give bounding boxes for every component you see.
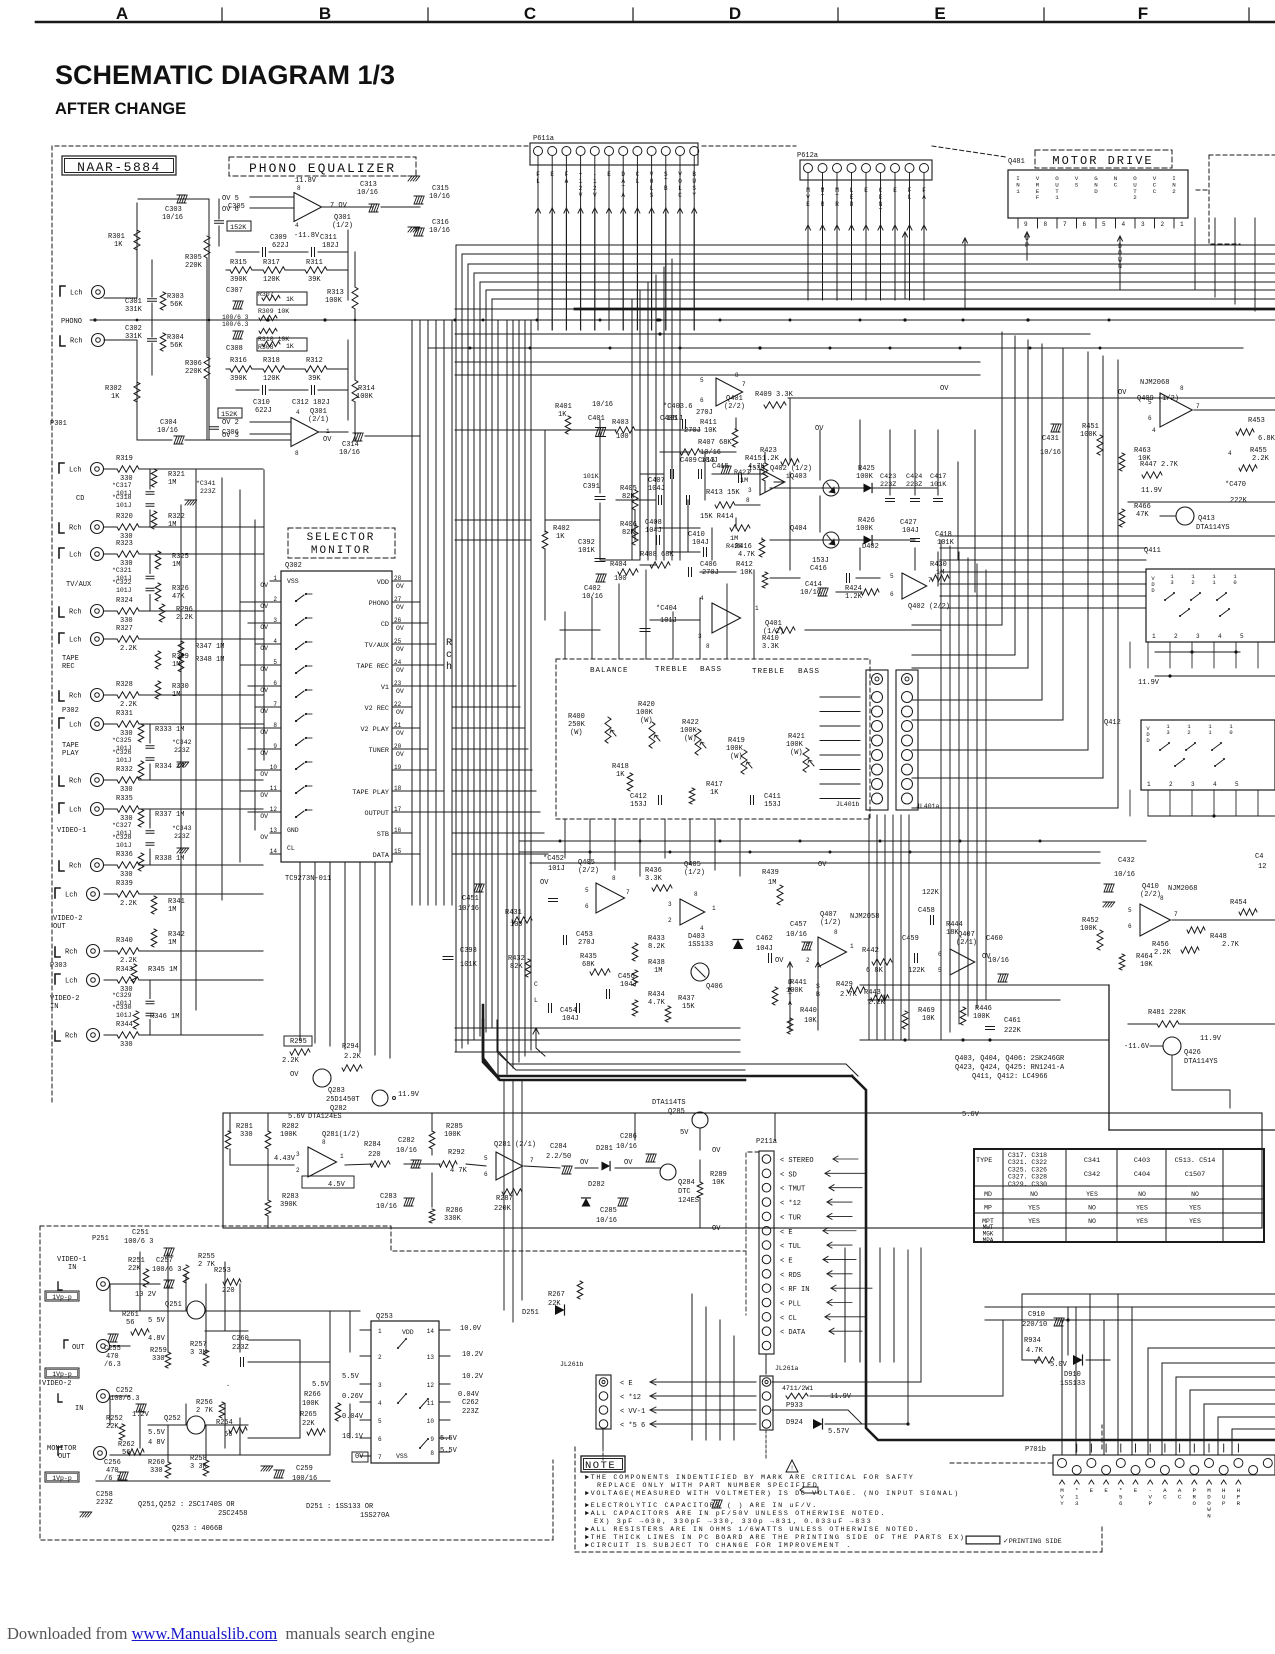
svg-text:4: 4 (1228, 450, 1232, 457)
svg-text:101J: 101J (116, 587, 132, 594)
svg-text:MP: MP (984, 1205, 992, 1212)
svg-text:*C328: *C328 (112, 834, 132, 841)
svg-text:V2 PLAY: V2 PLAY (360, 726, 389, 734)
svg-text:JL401a: JL401a (916, 803, 940, 810)
svg-text:< *5 6: < *5 6 (620, 1422, 645, 1430)
svg-text:V2 REC: V2 REC (365, 705, 389, 713)
svg-text:5: 5 (890, 573, 894, 580)
svg-text:13: 13 (427, 1354, 435, 1361)
svg-text:82K: 82K (510, 963, 523, 971)
svg-text:R425: R425 (858, 465, 875, 473)
svg-text:Q252: Q252 (164, 1415, 181, 1423)
svg-text:8: 8 (1160, 895, 1164, 902)
svg-text:12: 12 (1258, 863, 1266, 871)
svg-text:120K: 120K (263, 276, 281, 284)
svg-text:11: 11 (270, 785, 278, 792)
svg-text:100K: 100K (726, 745, 744, 753)
svg-text:R453: R453 (1248, 417, 1265, 425)
svg-text:100K: 100K (325, 297, 343, 305)
svg-text:V1: V1 (381, 684, 389, 692)
svg-text:5: 5 (1102, 221, 1106, 228)
svg-text:10/16: 10/16 (592, 401, 613, 409)
svg-text:47K: 47K (172, 593, 185, 601)
svg-text:!: ! (790, 1465, 794, 1472)
svg-text:C325. C326: C325. C326 (1008, 1166, 1047, 1173)
svg-text:< *12: < *12 (780, 1200, 801, 1208)
svg-text:Rch: Rch (69, 609, 82, 617)
svg-text:152K: 152K (221, 411, 238, 419)
svg-text:R310 10K: R310 10K (258, 336, 289, 343)
svg-text:10/16: 10/16 (1040, 449, 1061, 457)
svg-text:Rch: Rch (69, 863, 82, 871)
svg-text:(2/2): (2/2) (1140, 891, 1161, 899)
svg-text:6: 6 (378, 1436, 382, 1443)
svg-text:VSS: VSS (396, 1453, 408, 1460)
svg-text:13: 13 (270, 827, 278, 834)
svg-text:P: P (1222, 1500, 1226, 1507)
svg-text:R348 1M: R348 1M (195, 656, 224, 664)
svg-text:OV: OV (260, 645, 268, 652)
svg-text:122K: 122K (908, 967, 926, 975)
svg-text:C: C (1153, 188, 1157, 195)
svg-text:5.57V: 5.57V (828, 1428, 850, 1436)
svg-text:R342: R342 (168, 931, 185, 939)
svg-text:10.2V: 10.2V (462, 1373, 484, 1381)
svg-text:2.7K: 2.7K (1222, 941, 1240, 949)
svg-text:C252: C252 (116, 1387, 133, 1395)
svg-text:*C404: *C404 (656, 605, 677, 613)
svg-text:1M: 1M (768, 879, 776, 887)
svg-text:S: S (1075, 181, 1079, 188)
svg-text:10/16: 10/16 (458, 905, 479, 913)
svg-text:101J: 101J (116, 502, 132, 509)
svg-text:2.2K: 2.2K (120, 701, 138, 709)
svg-text:✓PRINTING SIDE: ✓PRINTING SIDE (1003, 1538, 1062, 1546)
svg-text:Lch: Lch (65, 978, 78, 986)
svg-text:D: D (1094, 188, 1098, 195)
svg-text:Q282: Q282 (330, 1105, 347, 1113)
svg-text:5: 5 (484, 1155, 488, 1162)
svg-text:10K: 10K (712, 1179, 725, 1187)
svg-text:R257: R257 (190, 1341, 207, 1349)
svg-text:Lch: Lch (65, 892, 78, 900)
svg-text:1: 1 (1180, 221, 1184, 228)
svg-text:NJM2068: NJM2068 (1140, 379, 1169, 387)
svg-text:R413 15K: R413 15K (706, 489, 740, 497)
svg-text:153J: 153J (812, 557, 829, 565)
svg-text:C412: C412 (630, 793, 647, 801)
svg-text:223Z: 223Z (174, 833, 190, 840)
svg-text:Rch: Rch (69, 693, 82, 701)
svg-text:R469: R469 (918, 1007, 935, 1015)
svg-text:D402: D402 (862, 543, 879, 551)
svg-text:C393: C393 (460, 947, 477, 955)
svg-text:39K: 39K (308, 375, 321, 383)
svg-text:C314: C314 (342, 441, 359, 449)
svg-text:R429: R429 (836, 981, 853, 989)
svg-text:Q405: Q405 (684, 861, 701, 869)
svg-text:L: L (534, 997, 538, 1004)
svg-text:10/16: 10/16 (988, 957, 1009, 965)
svg-text:Lch: Lch (69, 807, 82, 815)
svg-text:O: O (1193, 1500, 1197, 1507)
svg-text:100K: 100K (302, 1400, 320, 1408)
svg-text:2.2K: 2.2K (120, 645, 138, 653)
svg-text:*C326: *C326 (112, 749, 132, 756)
svg-text:R341: R341 (168, 898, 185, 906)
svg-text:R456: R456 (1152, 941, 1169, 949)
svg-text:NJM2068: NJM2068 (1168, 885, 1197, 893)
svg-text:OUT: OUT (53, 923, 66, 931)
svg-text:C312 182J: C312 182J (292, 399, 330, 407)
svg-text:R289: R289 (710, 1171, 727, 1179)
svg-text:DATA: DATA (373, 852, 390, 860)
svg-text:15: 15 (394, 848, 402, 855)
svg-text:VIDEO-1: VIDEO-1 (57, 827, 86, 835)
svg-text:3: 3 (806, 941, 810, 948)
svg-text:R254: R254 (216, 1419, 233, 1427)
svg-text:7: 7 (742, 381, 746, 388)
svg-text:OV: OV (580, 1159, 589, 1167)
svg-text:MOTOR DRIVE: MOTOR DRIVE (1052, 154, 1153, 168)
svg-text:R284: R284 (364, 1141, 381, 1149)
svg-text:*C321: *C321 (112, 567, 132, 574)
svg-text:R437: R437 (678, 995, 695, 1003)
svg-text:R407 68K: R407 68K (698, 439, 732, 447)
svg-text:NO: NO (1030, 1191, 1038, 1198)
svg-text:R333 1M: R333 1M (155, 726, 184, 734)
svg-text:OV 6: OV 6 (222, 206, 239, 214)
svg-text:C257: C257 (156, 1257, 173, 1265)
svg-text:14: 14 (427, 1328, 435, 1335)
svg-text:R466: R466 (1134, 503, 1151, 511)
svg-text:Q481: Q481 (1008, 158, 1025, 166)
svg-text:6: 6 (1083, 221, 1087, 228)
svg-text:Q253 : 4066B: Q253 : 4066B (172, 1525, 222, 1533)
svg-text:R313: R313 (327, 289, 344, 297)
svg-text:Q410: Q410 (1142, 883, 1159, 891)
svg-text:R332: R332 (116, 766, 133, 774)
svg-text:C451: C451 (462, 895, 479, 903)
svg-text:1K: 1K (558, 411, 567, 419)
svg-text:R339: R339 (116, 880, 133, 888)
svg-text:390K: 390K (230, 375, 248, 383)
svg-text:P251: P251 (92, 1235, 109, 1243)
svg-text:IN: IN (68, 1264, 76, 1272)
svg-text:1: 1 (850, 943, 854, 950)
svg-text:*C329: *C329 (112, 992, 132, 999)
svg-text:5: 5 (1148, 399, 1152, 406)
svg-text:101K: 101K (583, 473, 599, 480)
svg-text:(W): (W) (684, 735, 697, 743)
svg-text:►CIRCUIT IS SUBJECT TO CHANGE: ►CIRCUIT IS SUBJECT TO CHANGE FOR IMPROV… (585, 1542, 852, 1550)
svg-text:D403: D403 (688, 933, 705, 941)
svg-text:C327. C328: C327. C328 (1008, 1174, 1047, 1181)
svg-text:R322: R322 (168, 513, 185, 521)
svg-text:330: 330 (150, 1467, 163, 1475)
svg-text:R454: R454 (1230, 899, 1247, 907)
svg-text:D251 : 1SS133 OR: D251 : 1SS133 OR (306, 1503, 374, 1511)
svg-text:8: 8 (1044, 221, 1048, 228)
svg-text:h: h (446, 661, 452, 673)
svg-text:< RF IN: < RF IN (780, 1286, 809, 1294)
svg-text:R296: R296 (176, 606, 193, 614)
svg-text:R315: R315 (230, 259, 247, 267)
svg-text:TAPE: TAPE (62, 742, 79, 750)
svg-text:1K: 1K (111, 393, 120, 401)
svg-text:R435: R435 (580, 953, 597, 961)
svg-text:1M: 1M (168, 939, 176, 947)
svg-text:NJM2058: NJM2058 (850, 913, 879, 921)
svg-text:22K: 22K (302, 1420, 315, 1428)
svg-text:NOTE: NOTE (585, 1460, 616, 1472)
svg-text:2SC2458: 2SC2458 (218, 1510, 247, 1518)
svg-text:C311: C311 (320, 234, 337, 242)
svg-text:NO: NO (1138, 1191, 1146, 1198)
svg-text:C342: C342 (1084, 1171, 1100, 1179)
svg-text:7: 7 (378, 1454, 382, 1461)
svg-text:R256: R256 (196, 1399, 213, 1407)
svg-text:< PLL: < PLL (780, 1301, 801, 1309)
svg-text:1Vp-p: 1Vp-p (52, 1294, 72, 1301)
svg-text:C313: C313 (360, 181, 377, 189)
svg-text:R422: R422 (682, 719, 699, 727)
svg-text:8: 8 (295, 450, 299, 457)
svg-text:VIDEO-2: VIDEO-2 (42, 1380, 71, 1388)
svg-text:2.2K: 2.2K (120, 900, 138, 908)
svg-text:153J: 153J (630, 801, 647, 809)
svg-text:R455: R455 (1250, 447, 1267, 455)
svg-text:OV: OV (260, 750, 268, 757)
svg-text:2: 2 (1174, 633, 1178, 640)
svg-text:IN: IN (50, 1003, 58, 1011)
svg-text:3: 3 (378, 1382, 382, 1389)
svg-text:OV: OV (396, 751, 404, 758)
svg-text:10/16: 10/16 (786, 931, 807, 939)
svg-text:R406: R406 (620, 521, 637, 529)
svg-text:R: R (1237, 1500, 1241, 1507)
svg-text:21: 21 (394, 722, 402, 729)
svg-text:Q407: Q407 (820, 911, 837, 919)
svg-text:R338 1M: R338 1M (155, 855, 184, 863)
svg-text:Lch: Lch (69, 722, 82, 730)
svg-text:Q426: Q426 (1184, 1049, 1201, 1057)
svg-text:R258: R258 (190, 1455, 207, 1463)
svg-text:NO: NO (1088, 1205, 1096, 1212)
svg-text:C392: C392 (578, 539, 595, 547)
svg-text:C: C (1114, 181, 1118, 188)
svg-text:PLAY: PLAY (62, 750, 80, 758)
svg-text:10/16: 10/16 (162, 214, 183, 222)
svg-text:/6.3: /6.3 (104, 1361, 121, 1369)
svg-text:104J: 104J (756, 945, 773, 953)
svg-text:OV 5: OV 5 (222, 195, 239, 203)
svg-text:*C322: *C322 (112, 579, 132, 586)
svg-text:5 5V: 5 5V (148, 1317, 166, 1325)
svg-text:Q405: Q405 (578, 859, 595, 867)
svg-text:Q284: Q284 (678, 1179, 695, 1187)
svg-text:1K: 1K (114, 241, 123, 249)
svg-text:C401: C401 (588, 415, 605, 423)
svg-text:(1/2): (1/2) (332, 222, 353, 230)
svg-text:100K: 100K (280, 1131, 298, 1139)
svg-text:7: 7 (626, 889, 630, 896)
svg-text:182J: 182J (322, 242, 339, 250)
svg-text:8: 8 (1180, 385, 1184, 392)
svg-text:270J: 270J (702, 569, 719, 577)
svg-text:5.5V: 5.5V (440, 1447, 458, 1455)
svg-text:23: 23 (394, 680, 402, 687)
svg-text:C282: C282 (398, 1137, 415, 1145)
svg-text:6: 6 (1128, 923, 1132, 930)
svg-text:< E: < E (780, 1229, 793, 1237)
svg-text:3: 3 (668, 901, 672, 908)
svg-text:R320: R320 (116, 513, 133, 521)
svg-text:R405: R405 (620, 485, 637, 493)
svg-text:104J: 104J (902, 527, 919, 535)
svg-text:C418: C418 (935, 531, 952, 539)
svg-text:(1/2): (1/2) (684, 869, 705, 877)
svg-text:R282: R282 (282, 1123, 299, 1131)
svg-text:►ALL CAPACITORS ARE IN pF/50V: ►ALL CAPACITORS ARE IN pF/50V UNLESS OTH… (585, 1510, 886, 1518)
svg-text:68K: 68K (582, 961, 595, 969)
svg-text:C410: C410 (688, 531, 705, 539)
svg-text:56K: 56K (170, 301, 183, 309)
svg-text:R401: R401 (555, 403, 572, 411)
svg-text:0V: 0V (355, 1453, 364, 1461)
svg-text:16: 16 (394, 827, 402, 834)
svg-text:622J: 622J (272, 242, 289, 250)
svg-text:3: 3 (273, 617, 277, 624)
svg-text:P: P (1148, 1500, 1152, 1507)
svg-text:100K: 100K (856, 473, 874, 481)
svg-text:TV/AUX: TV/AUX (365, 642, 389, 650)
svg-text:28: 28 (394, 575, 402, 582)
svg-text:7: 7 (1063, 221, 1067, 228)
svg-text:4: 4 (296, 409, 300, 416)
svg-text:R426: R426 (858, 517, 875, 525)
svg-text:JL261b: JL261b (560, 1361, 584, 1368)
svg-text:4: 4 (1213, 781, 1217, 788)
svg-text:R286: R286 (446, 1207, 463, 1215)
svg-text:331K: 331K (125, 306, 143, 314)
svg-text:220/10: 220/10 (1022, 1321, 1047, 1329)
svg-text:< SD: < SD (780, 1171, 797, 1179)
svg-text:10/16: 10/16 (700, 449, 721, 457)
svg-text:25D1450T: 25D1450T (326, 1096, 360, 1104)
svg-text:R327: R327 (116, 625, 133, 633)
svg-text:-11.8V: -11.8V (294, 232, 320, 240)
svg-text:Q411: Q411 (1144, 547, 1161, 555)
svg-text:R415: R415 (745, 455, 762, 463)
svg-text:< VV-1: < VV-1 (620, 1408, 645, 1416)
svg-text:AFTER CHANGE: AFTER CHANGE (55, 100, 186, 118)
svg-text:C: C (1178, 1493, 1182, 1500)
svg-text:R267: R267 (548, 1291, 565, 1299)
svg-text:< STEREO: < STEREO (780, 1157, 814, 1165)
svg-text:R410: R410 (762, 635, 779, 643)
svg-text:YES: YES (1189, 1205, 1201, 1212)
svg-text:Q403, Q404, Q406: 2SK246GR: Q403, Q404, Q406: 2SK246GR (955, 1055, 1065, 1063)
svg-text:Q413: Q413 (1198, 515, 1215, 523)
svg-text:D281: D281 (596, 1145, 613, 1153)
svg-text:MPA: MPA (983, 1237, 994, 1244)
svg-text:223Z: 223Z (462, 1408, 479, 1416)
svg-text:*C403.6: *C403.6 (663, 403, 692, 411)
svg-text:1M: 1M (936, 569, 944, 577)
svg-text:2.2K: 2.2K (1154, 949, 1172, 957)
svg-text:R326: R326 (172, 585, 189, 593)
svg-text:R438: R438 (648, 959, 665, 967)
svg-text:C458: C458 (918, 907, 935, 915)
svg-text:R281: R281 (236, 1123, 253, 1131)
svg-text:OV: OV (624, 1159, 633, 1167)
svg-text:C303: C303 (165, 206, 182, 214)
svg-text:R464: R464 (1136, 953, 1153, 961)
svg-text:OV: OV (260, 729, 268, 736)
svg-text:2: 2 (1172, 188, 1176, 195)
svg-text:R443: R443 (864, 989, 881, 997)
svg-text:C404: C404 (1134, 1171, 1150, 1179)
svg-text:YES: YES (1189, 1218, 1201, 1225)
svg-text:8.2K: 8.2K (648, 943, 666, 951)
svg-text:Lch: Lch (69, 637, 82, 645)
svg-text:0.26V: 0.26V (342, 1393, 364, 1401)
svg-text:R440: R440 (800, 1007, 817, 1015)
svg-text:5.5V: 5.5V (148, 1429, 166, 1437)
svg-text:< TMUT: < TMUT (780, 1186, 805, 1194)
svg-text:►THE COMPONENTS INDENTIFIED BY: ►THE COMPONENTS INDENTIFIED BY MARK ARE … (585, 1474, 914, 1482)
svg-text:56K: 56K (170, 342, 183, 350)
svg-text:OV: OV (396, 646, 404, 653)
svg-text:220K: 220K (494, 1205, 512, 1213)
svg-text:4.43V: 4.43V (274, 1155, 296, 1163)
svg-text:(2/1): (2/1) (308, 416, 329, 424)
svg-text:6: 6 (1148, 415, 1152, 422)
svg-text:17: 17 (394, 806, 402, 813)
svg-text:270J: 270J (696, 409, 713, 417)
svg-text:5: 5 (273, 659, 277, 666)
svg-text:D: D (729, 4, 741, 23)
svg-text:N: N (1207, 1513, 1211, 1520)
svg-text:C310: C310 (253, 399, 270, 407)
svg-text:10: 10 (270, 764, 278, 771)
svg-text:3: 3 (748, 487, 752, 494)
svg-text:3: 3 (1191, 781, 1195, 788)
svg-text:TYPE: TYPE (976, 1157, 992, 1165)
svg-text:2: 2 (1161, 221, 1165, 228)
svg-text:5.5V: 5.5V (440, 1435, 458, 1443)
svg-text:SELECTOR: SELECTOR (307, 532, 376, 544)
svg-text:6: 6 (273, 680, 277, 687)
svg-text:1M: 1M (172, 561, 180, 569)
svg-text:R417: R417 (706, 781, 723, 789)
svg-text:11: 11 (427, 1400, 435, 1407)
svg-text:YES: YES (1136, 1205, 1148, 1212)
svg-text:C285: C285 (600, 1207, 617, 1215)
svg-text:10/16: 10/16 (616, 1143, 637, 1151)
svg-text:< TUL: < TUL (780, 1243, 801, 1251)
svg-text:5.5V: 5.5V (342, 1373, 360, 1381)
svg-text:7 OV: 7 OV (330, 202, 348, 210)
svg-text:R347 1M: R347 1M (195, 643, 224, 651)
svg-text:104J: 104J (620, 981, 637, 989)
svg-text:10/16: 10/16 (157, 427, 178, 435)
svg-text:56: 56 (126, 1319, 134, 1327)
svg-text:2: 2 (273, 596, 277, 603)
svg-text:120K: 120K (263, 375, 281, 383)
svg-text:0.04V: 0.04V (458, 1391, 480, 1399)
